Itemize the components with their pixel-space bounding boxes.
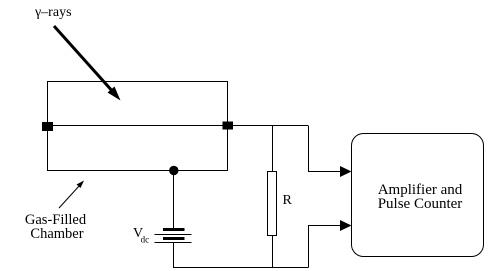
resistor R body	[268, 172, 277, 236]
battery Vdc plates	[155, 230, 192, 243]
node junction dot	[169, 166, 178, 175]
svg-text:Pulse Counter: Pulse Counter	[378, 196, 463, 212]
wire: lower path to amplifier	[309, 226, 345, 268]
gamma-ray arrow	[54, 26, 121, 101]
gas-filled chamber outline	[48, 82, 228, 171]
svg-text:γ–rays: γ–rays	[34, 5, 72, 20]
wire: resistor bottom to bottom wire	[272, 236, 274, 268]
right electrode terminal	[223, 122, 234, 130]
wire: upper path to amplifier	[309, 126, 345, 172]
svg-text:R: R	[283, 193, 293, 208]
electrode plate line	[47, 125, 308, 127]
pointer arrow to chamber	[59, 181, 84, 209]
arrowhead upper input	[340, 166, 352, 177]
arrowhead lower input	[340, 220, 352, 231]
amplifier box	[352, 134, 484, 257]
wire: battery bottom down	[173, 243, 175, 268]
wire: electrode line to resistor top	[272, 126, 274, 172]
bottom wire	[173, 267, 309, 269]
svg-text:Chamber: Chamber	[30, 226, 83, 242]
wire: junction to battery top	[173, 171, 175, 230]
left electrode terminal	[42, 122, 53, 131]
